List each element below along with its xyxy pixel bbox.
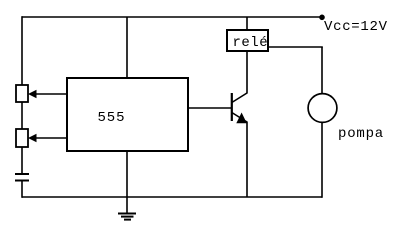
wire pump to bottom rail [321,122,323,198]
wire 555 pin to R2 with arrow [28,134,67,142]
wire relay to pump horizontal [268,46,323,48]
wire capacitor to bottom rail [21,181,23,198]
wire top rail Vcc [22,16,322,18]
svg-text:relé: relé [233,35,269,51]
resistor R1 (trimmer body) [16,85,28,102]
relay K1 box [227,30,268,51]
svg-text:555: 555 [98,110,126,126]
wire bottom rail [22,196,322,198]
wire 555 pin to R1 with arrow [28,90,67,98]
capacitor C1 [15,174,29,181]
wire down to pump [321,47,323,95]
wire emitter to bottom rail [246,122,248,198]
wire R1 to R2 [21,102,23,129]
svg-text:pompa: pompa [338,126,384,142]
op-amp U1 555 timer box [67,78,188,151]
node Vcc terminal dot [319,14,325,20]
wire collector to relay [246,51,248,94]
wire left rail top segment [21,16,23,85]
svg-text:Vcc=12V: Vcc=12V [324,19,388,35]
wire 555 top to rail [126,17,128,78]
wire 555 bottom to ground [126,151,128,214]
motor M1 pump circle [308,94,337,123]
transistor Q1 [232,93,247,123]
wire R2 to capacitor [21,147,23,174]
ground [118,214,136,220]
resistor R2 (trimmer body) [16,129,28,147]
wire 555 output to transistor base [188,107,232,109]
wire relay top to rail [246,17,248,30]
